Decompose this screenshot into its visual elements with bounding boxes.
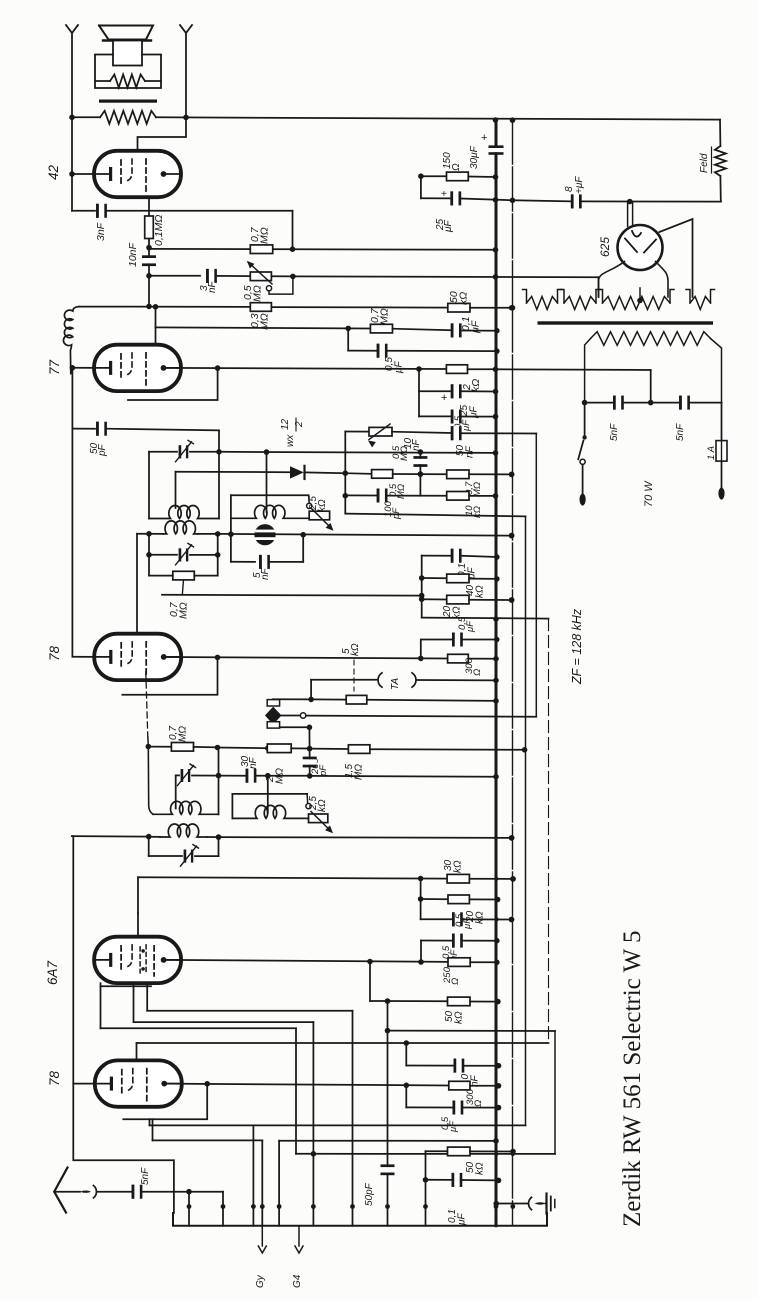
wire: osc cathode to pin [134,1021,314,1023]
svg-text:5nF: 5nF [609,423,620,441]
tube 78 [95,1060,182,1106]
svg-text:nF: nF [411,438,422,451]
capacitor 0,5 uF (screen bypass) [347,328,349,350]
label wx 12/2 [280,418,305,447]
tube 78 I grid coil (IFT2 primary) [148,747,153,815]
resistor 0,1 M&#937; (grid leak, vertical) [148,197,150,248]
svg-text:μF: μF [448,1120,459,1133]
svg-text:wx: wx [285,434,296,447]
wire: to rectifier filter [293,275,599,278]
mains transformer windings (top) [527,297,558,310]
svg-text:0,1MΩ: 0,1MΩ [153,215,165,246]
wire: grid lead tube 78 I [136,534,138,647]
resistor 2 M&#937; [218,747,268,750]
resistor 50 k&#937; [426,1150,448,1152]
resistor 5 k&#937; [311,698,346,700]
svg-text:625: 625 [598,237,612,257]
svg-text:kΩ: kΩ [454,1011,465,1024]
wire: AVC rail with grid resistors [146,744,152,750]
resistor 10 k&#937; [447,492,469,501]
capacitor 25 uF electrolytic [419,369,450,391]
svg-text:nF: nF [260,567,271,580]
capacitor 10nF (coupling, vertical) [148,248,150,307]
IF transformer 1 primary coil [149,506,219,519]
IFT1 tertiary coil [231,505,309,518]
resistor 0,3 M&#937; [79,306,250,308]
wire: detector diode feed [175,472,177,508]
svg-text:μF: μF [461,419,472,432]
svg-text:pF: pF [318,764,329,777]
tube 6A7 [94,937,181,983]
vertical: trimmer left leg [175,775,177,808]
capacitor 5 nF [231,561,255,563]
wire: top HT rail [72,116,100,118]
shielded lead (striped disc) [254,524,275,545]
ground terminal [498,1203,528,1205]
speaker terminal fork right [180,25,192,33]
svg-text:μF: μF [462,917,473,930]
capacitor 50 nF [451,426,454,440]
heater winding center tap [637,298,643,304]
label leader 5 k&#937; [353,660,355,691]
diode (detector) [290,466,304,478]
wire: RF cathode to antenna coil [72,836,74,1084]
6A7 grid bracket [101,985,152,987]
tube 77 [94,345,181,391]
speaker cone [99,26,153,40]
resistor Feld (field coil) [719,120,721,146]
svg-text:MΩ: MΩ [379,308,391,325]
wire: common return row [296,1153,555,1155]
svg-text:kΩ: kΩ [458,292,470,305]
svg-text:μF: μF [465,620,476,633]
wire: rectifier output rail [513,200,572,201]
band switch wiper (diamond) [265,707,282,725]
svg-text:+μF: +μF [574,176,585,194]
antenna coil trimmer [148,837,150,856]
osc coil tap from 2M [267,776,269,813]
IFT1 secondary trimmer [148,534,150,576]
antenna secondary coil [160,824,207,837]
antenna [54,1168,67,1213]
wire: padder line [387,1001,389,1226]
resistor 50 k&#937; [448,303,470,312]
svg-text:MΩ: MΩ [354,764,365,780]
resistor 2 k&#937; [446,365,467,374]
svg-text:kΩ: kΩ [317,799,328,812]
resistor 30 k&#937; [421,878,448,880]
svg-text:Ω: Ω [451,163,462,171]
svg-text:Ω: Ω [472,669,483,676]
capacitor 100 pF [345,494,377,496]
svg-text:μF: μF [394,361,405,374]
capacitor 0,1 uF [422,555,451,557]
wire: band switch pad 1 [267,700,279,706]
second supply rail [512,120,514,1226]
wire: AVC line vertical [344,432,346,514]
resistor 50 k&#937; (osc anode) [369,962,371,1002]
wire: osc grid to pin [147,1010,352,1012]
svg-text:kΩ: kΩ [317,499,328,512]
svg-text:μF: μF [443,220,454,233]
svg-text:30μF: 30μF [469,145,480,169]
speaker magnet frame [95,55,161,89]
wire: tube 77 anode line [164,368,447,369]
svg-text:Ω: Ω [450,978,461,985]
svg-text:pF: pF [97,443,108,457]
mains switch [584,403,586,438]
svg-text:Feld: Feld [699,153,710,173]
capacitor 0,5 uF (anode decoupling) [421,640,452,659]
capacitor 0,5 uF [420,879,422,920]
svg-text:MΩ: MΩ [472,482,483,497]
terminal Gy [261,1226,263,1246]
resistor 0,7 M&#937; [447,470,469,479]
capacitor 10 nF [405,1043,407,1066]
wire: 6A7 grid cap lead [137,877,139,913]
svg-text:70 W: 70 W [643,480,655,507]
svg-text:MΩ: MΩ [178,602,190,619]
tube 78 II grid bracket [123,1084,207,1119]
wire: anode rail to mains transformer [496,368,651,371]
svg-text:+: + [481,132,487,144]
wire: 6A7 anode line + 250 &#937; [164,960,448,962]
junction [69,115,75,121]
wire: corner to long vertical [345,514,525,517]
svg-text:Gy: Gy [255,1274,266,1288]
terminal G4 [298,1226,300,1246]
HT bus (B+) [495,120,498,148]
long lead (dashed) to RF grid [548,619,550,1043]
TA pickup jack [310,680,312,700]
capacitor 0,5 uF (cathode) [418,391,420,416]
speaker terminal fork left [66,25,78,33]
wiper terminal [266,286,271,291]
wire: AF coupling from 0,7M [162,594,422,597]
resistor 1,5 M&#937; [310,748,349,750]
svg-text:Zerdik RW 561 Selectric W 5: Zerdik RW 561 Selectric W 5 [619,931,646,1227]
svg-text:TA: TA [390,678,401,690]
wire: cathode network return [421,556,423,618]
svg-text:Ω: Ω [473,1100,484,1107]
oscillator grid coil box [232,793,307,795]
wire: RF cathode bias line [149,1119,151,1125]
wire: 6A7 cathode lead [101,1027,297,1029]
wire: grid-cap lead into tube 42 [138,117,187,164]
potentiometer 2,5 k&#937; [307,503,312,508]
potentiometer 0,5 M&#937; (IF gain) [345,431,369,433]
wire: IFT1 top to HT [219,452,496,453]
svg-text:MΩ: MΩ [396,484,407,499]
svg-text:μF: μF [457,1213,468,1226]
svg-text:+: + [441,189,447,200]
IF transformer 1 trimmer (primary) [218,430,220,518]
svg-text:5nF: 5nF [140,1167,151,1185]
capacitor 25 uF electrolytic [420,176,422,198]
wire: AVC to RF secondary [72,835,149,838]
capacitor 50 pF (IF coupling) [71,368,73,429]
oscillator coil [232,805,308,818]
junction: 77 cathode [70,365,76,371]
junction [146,245,152,251]
wire: 78 cathode to 77 cathode [71,429,73,657]
resistor 40 k&#937; [422,577,447,579]
grid lead dashes to 6A7 (AVC) [146,672,148,737]
oscillator pot box wire [231,494,309,496]
svg-text:kΩ: kΩ [350,643,361,656]
resistor 0,7 M&#937; (grid leak 78) [173,571,195,580]
svg-text:pF: pF [391,507,402,520]
junction [343,470,349,476]
wire: 6A7 grid row to HT [138,877,421,878]
capacitor 8 uF [571,194,574,208]
mains primary winding [591,332,711,346]
capacitor 3 nF [206,269,209,283]
capacitor 5 nF (antenna) [132,1185,135,1199]
svg-text:78: 78 [47,1070,62,1086]
wire: 78 anode line + resistor 300 &#937; [164,657,448,659]
wire: AF line with 3nF [149,275,200,277]
junctions on secondary line [146,531,152,537]
6A7 bracket leads [100,983,102,1028]
speaker hum-bucking coil (zigzag) [110,75,145,88]
resistor 0,7 M&#937; [149,248,496,251]
junction [146,273,152,279]
ground symbol [545,1194,547,1214]
wire: tube 42 cathode to left rail [71,117,73,174]
wire: feedback corner [292,211,294,249]
bus junction dots [493,117,499,123]
svg-text:G4: G4 [292,1274,303,1288]
svg-text:MΩ: MΩ [259,227,271,244]
coil: 77 grid choke [63,307,79,374]
svg-text:kΩ: kΩ [470,379,482,392]
wire: HT to transformer [650,370,652,403]
svg-text:kΩ: kΩ [453,860,464,873]
svg-text:kΩ: kΩ [475,1162,486,1175]
625 anode leads [599,262,625,298]
svg-text:50pF: 50pF [364,1182,375,1206]
svg-text:MΩ: MΩ [178,726,189,742]
potentiometer 0,5 M&#937; (volume) [250,272,271,281]
svg-text:nF: nF [465,445,476,458]
IF transformer 1 secondary coil [137,533,163,535]
svg-text:77: 77 [47,359,62,375]
resistor 0,7 M&#937; [171,743,193,752]
svg-text:ZF = 128 kHz: ZF = 128 kHz [570,608,584,685]
pin lead [252,1125,254,1225]
resistor 150 &#937; [421,175,447,177]
pin leads [188,1192,190,1226]
svg-text:1 A: 1 A [706,446,717,460]
svg-text:12: 12 [280,418,291,430]
junction + lead into tube 77 grid cap [153,304,159,310]
vertical: IFT2 right leg [218,748,220,815]
capacitor 10 nF (vertical) [419,452,421,496]
capacitor 0,1 uF [425,1151,427,1226]
tube 77 grid return bracket [128,368,218,400]
IFT2 trimmer + 30 nF row [176,774,179,776]
band switch pad 2 [267,722,279,728]
svg-text:6A7: 6A7 [45,960,60,985]
svg-text:MΩ: MΩ [252,285,264,302]
svg-text:kΩ: kΩ [475,585,486,598]
output transformer core bar [99,100,157,103]
speaker voice coil box [113,41,142,66]
coil center tap to HT [266,452,268,512]
rectifier tube 625 [618,225,663,270]
svg-text:nF: nF [248,756,259,769]
wire: RF anode + 300 &#937; [164,1084,449,1086]
tube 78 [94,634,181,680]
capacitor 200 pF (vertical) [309,749,311,776]
svg-text:42: 42 [46,164,61,180]
output transformer primary / field winding [100,111,156,124]
wire: bias feed down [598,277,600,297]
capacitor 0,5 uF (cathode) [421,940,452,942]
capacitor 30 uF electrolytic (in bus) [489,148,504,152]
chassis terminal strip [173,1213,547,1226]
svg-text:nF: nF [207,280,218,293]
fuse 1 A [721,403,723,441]
wire: cathode down to chassis strip [73,1084,174,1213]
wire: RF grid feed [137,1042,549,1044]
svg-text:kΩ: kΩ [475,911,486,924]
transformer core [538,321,714,324]
capacitor 50 pF (vertical) [381,1167,395,1172]
resistor 20 k&#937; [421,898,448,900]
wire: screen row to HT [152,1119,154,1140]
capacitor 0,1 uF [451,323,454,337]
capacitor 30 nF [219,775,246,777]
capacitor 3nF (feedback) [72,210,95,212]
resistor 20 k&#937; [422,598,447,600]
svg-text:3nF: 3nF [95,222,107,241]
wire: detector output line [218,534,512,536]
tube 78 grid bracket [122,657,217,694]
wire: screen feed with 0,7 M&#937; + 0,1 uF [156,327,371,328]
svg-text:5nF: 5nF [675,423,686,441]
svg-text:μF: μF [470,320,482,334]
capacitor 0,5 uF [405,1085,407,1107]
resistor 0,5 M&#937; [345,472,371,475]
tube 42 [94,151,181,197]
svg-text:10nF: 10nF [127,242,139,267]
svg-text:+: + [441,392,447,404]
capacitor 5 nF (mains) x2 [585,402,613,404]
svg-text:78: 78 [47,645,62,661]
vertical to band switch [535,434,537,717]
potentiometer 2,5 k&#937; (osc) [306,804,311,809]
